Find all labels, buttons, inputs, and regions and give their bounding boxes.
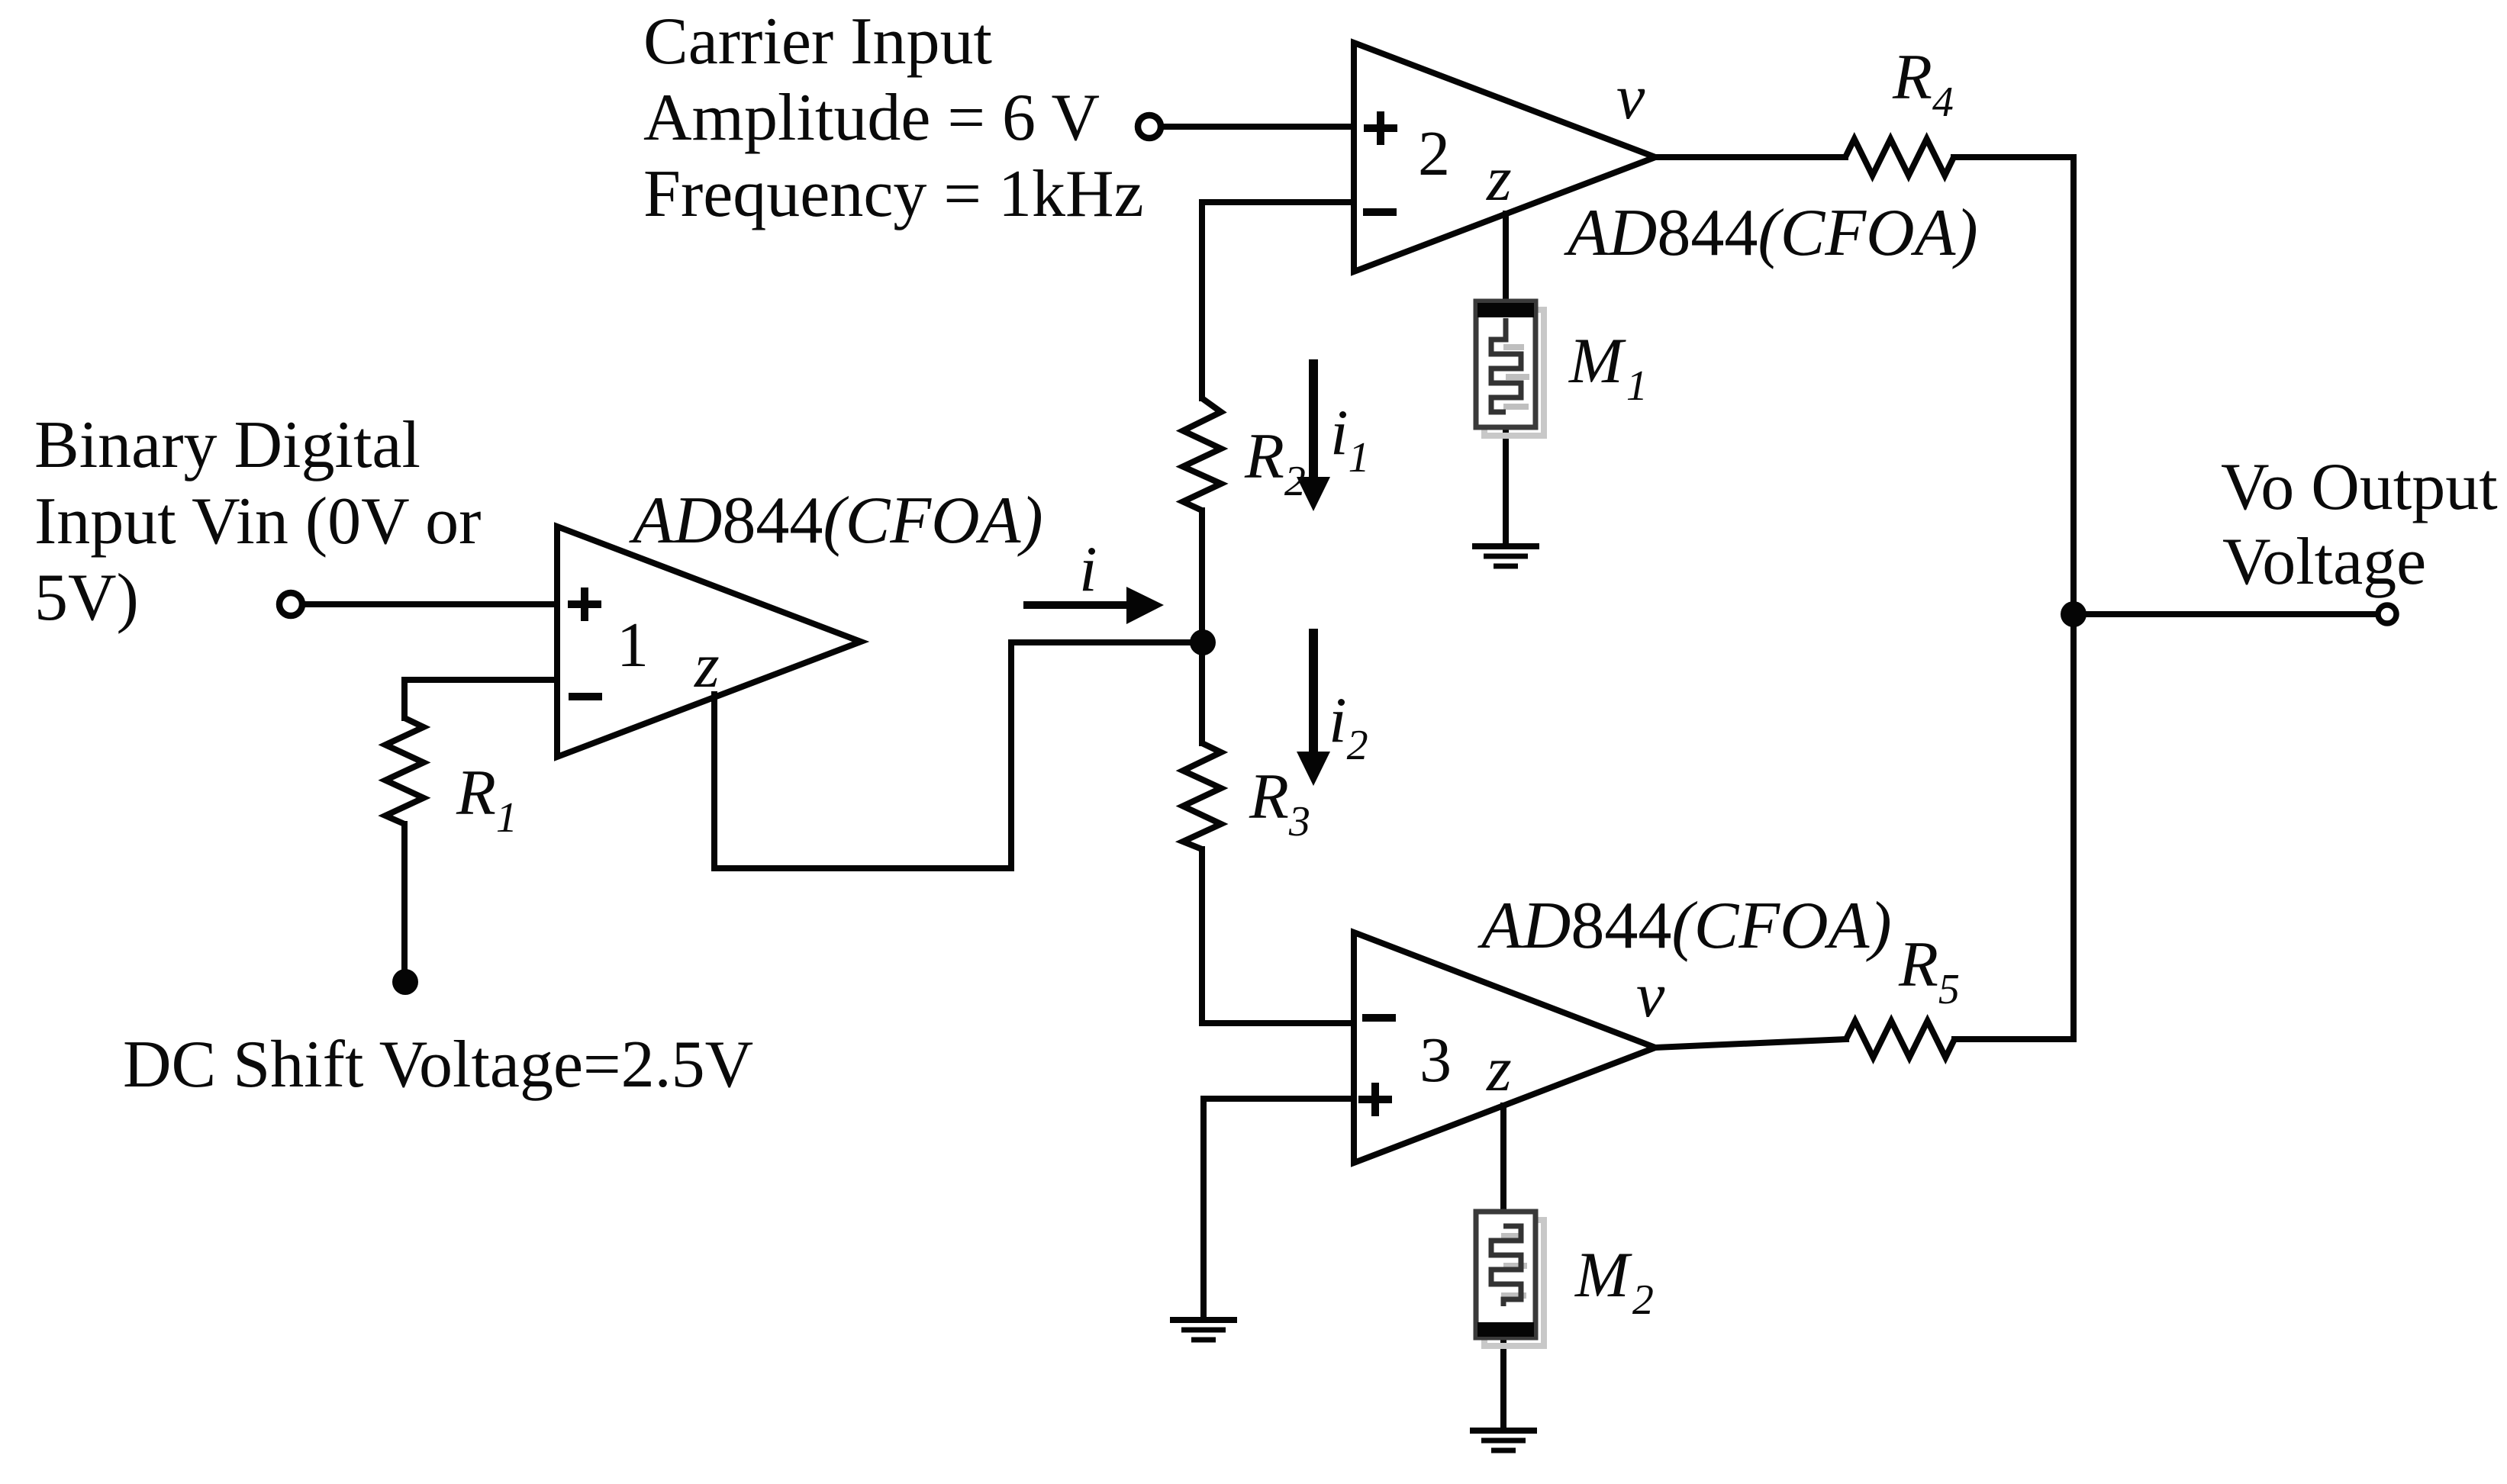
- svg-text:Input Vin (0V or: Input Vin (0V or: [34, 484, 481, 559]
- svg-text:Voltage: Voltage: [2222, 525, 2426, 599]
- svg-text:2: 2: [1418, 118, 1450, 189]
- svg-text:AD844(CFOA): AD844(CFOA): [1477, 889, 1892, 963]
- svg-text:5V): 5V): [34, 561, 139, 635]
- svg-text:v: v: [1616, 62, 1645, 133]
- svg-text:Vo Output: Vo Output: [2221, 450, 2498, 524]
- svg-text:z: z: [694, 630, 720, 701]
- svg-text:Binary Digital: Binary Digital: [34, 408, 421, 482]
- svg-text:AD844(CFOA): AD844(CFOA): [629, 484, 1043, 558]
- svg-text:z: z: [1486, 143, 1512, 214]
- svg-text:Frequency = 1kHz: Frequency = 1kHz: [643, 157, 1144, 231]
- svg-text:3: 3: [1419, 1025, 1452, 1096]
- svg-text:z: z: [1486, 1034, 1512, 1105]
- svg-text:1: 1: [617, 610, 649, 681]
- svg-text:i: i: [1079, 533, 1097, 605]
- svg-text:AD844(CFOA): AD844(CFOA): [1564, 196, 1978, 270]
- svg-text:DC Shift Voltage=2.5V: DC Shift Voltage=2.5V: [123, 1028, 753, 1102]
- svg-text:Amplitude = 6 V: Amplitude = 6 V: [643, 81, 1100, 155]
- svg-text:Carrier Input: Carrier Input: [643, 5, 992, 79]
- svg-text:v: v: [1636, 960, 1665, 1031]
